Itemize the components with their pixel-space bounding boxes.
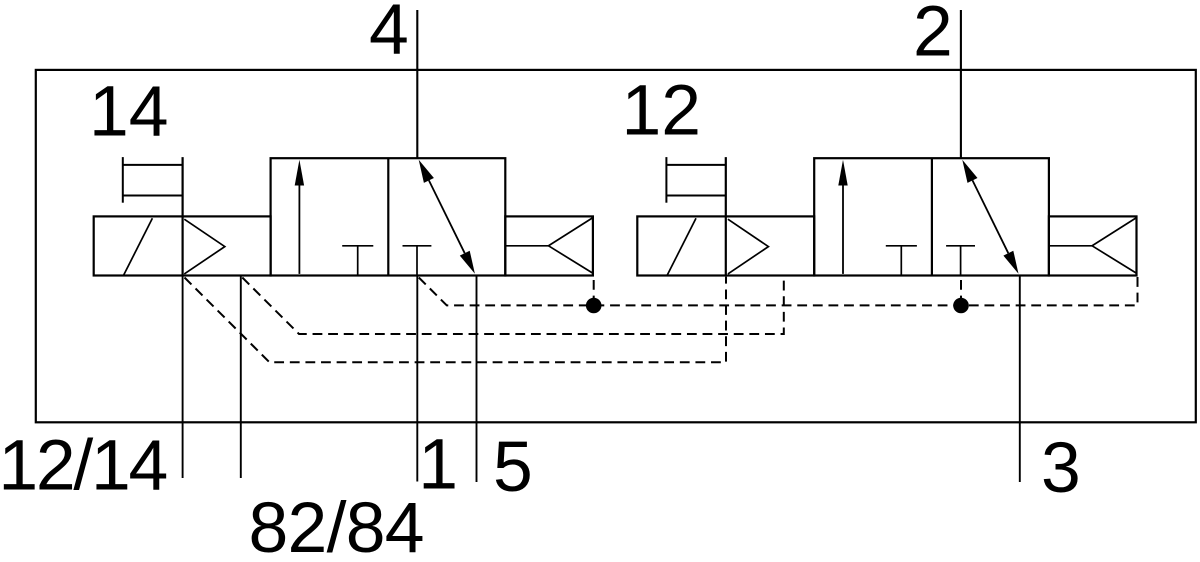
pilot supply branch to valve V2 (dashed) xyxy=(960,277,962,306)
pilot supply wire from port 1 (dashed) xyxy=(419,277,1138,306)
blocked port T stem (V2 rest position) xyxy=(960,246,962,276)
solenoid coil box V2 (12) xyxy=(637,216,814,275)
blocked port T (V1 actuated position) xyxy=(342,245,373,247)
blocked port T stem (V2 actuated position) xyxy=(900,246,902,275)
solenoid coil box V1 (14) xyxy=(94,216,271,275)
svg-text:3: 3 xyxy=(1041,428,1081,508)
manual override V2 left tick xyxy=(665,157,667,203)
arrow 2-3 upper head xyxy=(962,160,977,183)
valve body V2 (3/2-way valve) xyxy=(814,158,1049,275)
blocked port T stem (V1 rest position) xyxy=(416,246,418,276)
arrow 2-3 lower head xyxy=(1003,251,1018,274)
pilot exhaust triangle V2 xyxy=(1092,218,1136,273)
pilot triangle V2 xyxy=(728,219,769,274)
blocked port T stem (V1 actuated position) xyxy=(357,246,359,275)
valve V2 position divider xyxy=(931,158,933,275)
solenoid V2 divider / override stem xyxy=(725,157,727,275)
arrow 4-5 lower head xyxy=(460,251,475,274)
wire port 4 xyxy=(416,10,418,158)
pilot exhaust box V2 xyxy=(1049,216,1137,275)
pilot triangle V1 xyxy=(184,219,225,274)
pilot exhaust wire 82/84 to V2 (dashed) xyxy=(242,277,784,334)
junction node on pilot supply at V1 exhaust xyxy=(586,298,602,314)
manual override V1 left tick xyxy=(122,157,124,203)
svg-text:5: 5 xyxy=(493,427,533,507)
solenoid coil diagonal V2 xyxy=(667,218,696,275)
solenoid V1 divider / override stem xyxy=(182,157,184,275)
manual override V1 bottom line xyxy=(123,195,182,197)
svg-text:14: 14 xyxy=(89,72,169,152)
enclosure border (valve manifold outline) xyxy=(36,70,1196,422)
arrow 1-4 head xyxy=(295,160,304,186)
manual override V2 top line xyxy=(666,164,725,166)
arrow 1-2 shaft (V2 actuated position) xyxy=(842,182,844,274)
svg-text:12: 12 xyxy=(622,70,702,150)
wire port 1 xyxy=(416,276,418,482)
wire port 12/14 xyxy=(182,276,184,479)
pilot exhaust mid line V1 xyxy=(505,245,548,247)
blocked port T (V1 rest position) xyxy=(403,245,432,247)
wire port 2 xyxy=(960,10,962,158)
pilot exhaust box V1 xyxy=(505,216,593,275)
pilot signal wire 12/14 to V2 (dashed) xyxy=(185,277,727,363)
wire port 5 xyxy=(476,276,478,483)
arrow 1-4 shaft (V1 actuated position) xyxy=(298,182,300,274)
valve body V1 (3/2-way valve) xyxy=(271,158,506,275)
svg-text:4: 4 xyxy=(369,0,409,69)
svg-text:2: 2 xyxy=(913,0,953,72)
blocked port T (V2 actuated position) xyxy=(886,245,917,247)
wire port 82/84 xyxy=(240,276,242,479)
svg-text:1: 1 xyxy=(418,425,458,505)
arrow 4-5 shaft (V1 rest position) xyxy=(429,180,465,253)
pilot exhaust triangle V1 xyxy=(549,218,593,273)
arrow 4-5 upper head xyxy=(419,160,434,183)
pilot supply branch to exhaust box V1 (dashed) xyxy=(593,277,595,306)
solenoid coil diagonal V1 xyxy=(124,218,153,275)
pilot exhaust mid line V2 xyxy=(1049,245,1092,247)
valve V1 position divider xyxy=(387,158,389,275)
svg-text:82/84: 82/84 xyxy=(249,488,425,562)
junction node on pilot supply at V2 xyxy=(953,298,969,314)
manual override V2 bottom line xyxy=(666,195,725,197)
manual override V1 top line xyxy=(123,164,182,166)
arrow 1-2 head xyxy=(838,160,847,186)
arrow 2-3 shaft (V2 rest position) xyxy=(973,180,1009,253)
wire port 3 xyxy=(1019,276,1021,483)
svg-text:12/14: 12/14 xyxy=(0,426,168,506)
blocked port T (V2 rest position) xyxy=(946,245,975,247)
